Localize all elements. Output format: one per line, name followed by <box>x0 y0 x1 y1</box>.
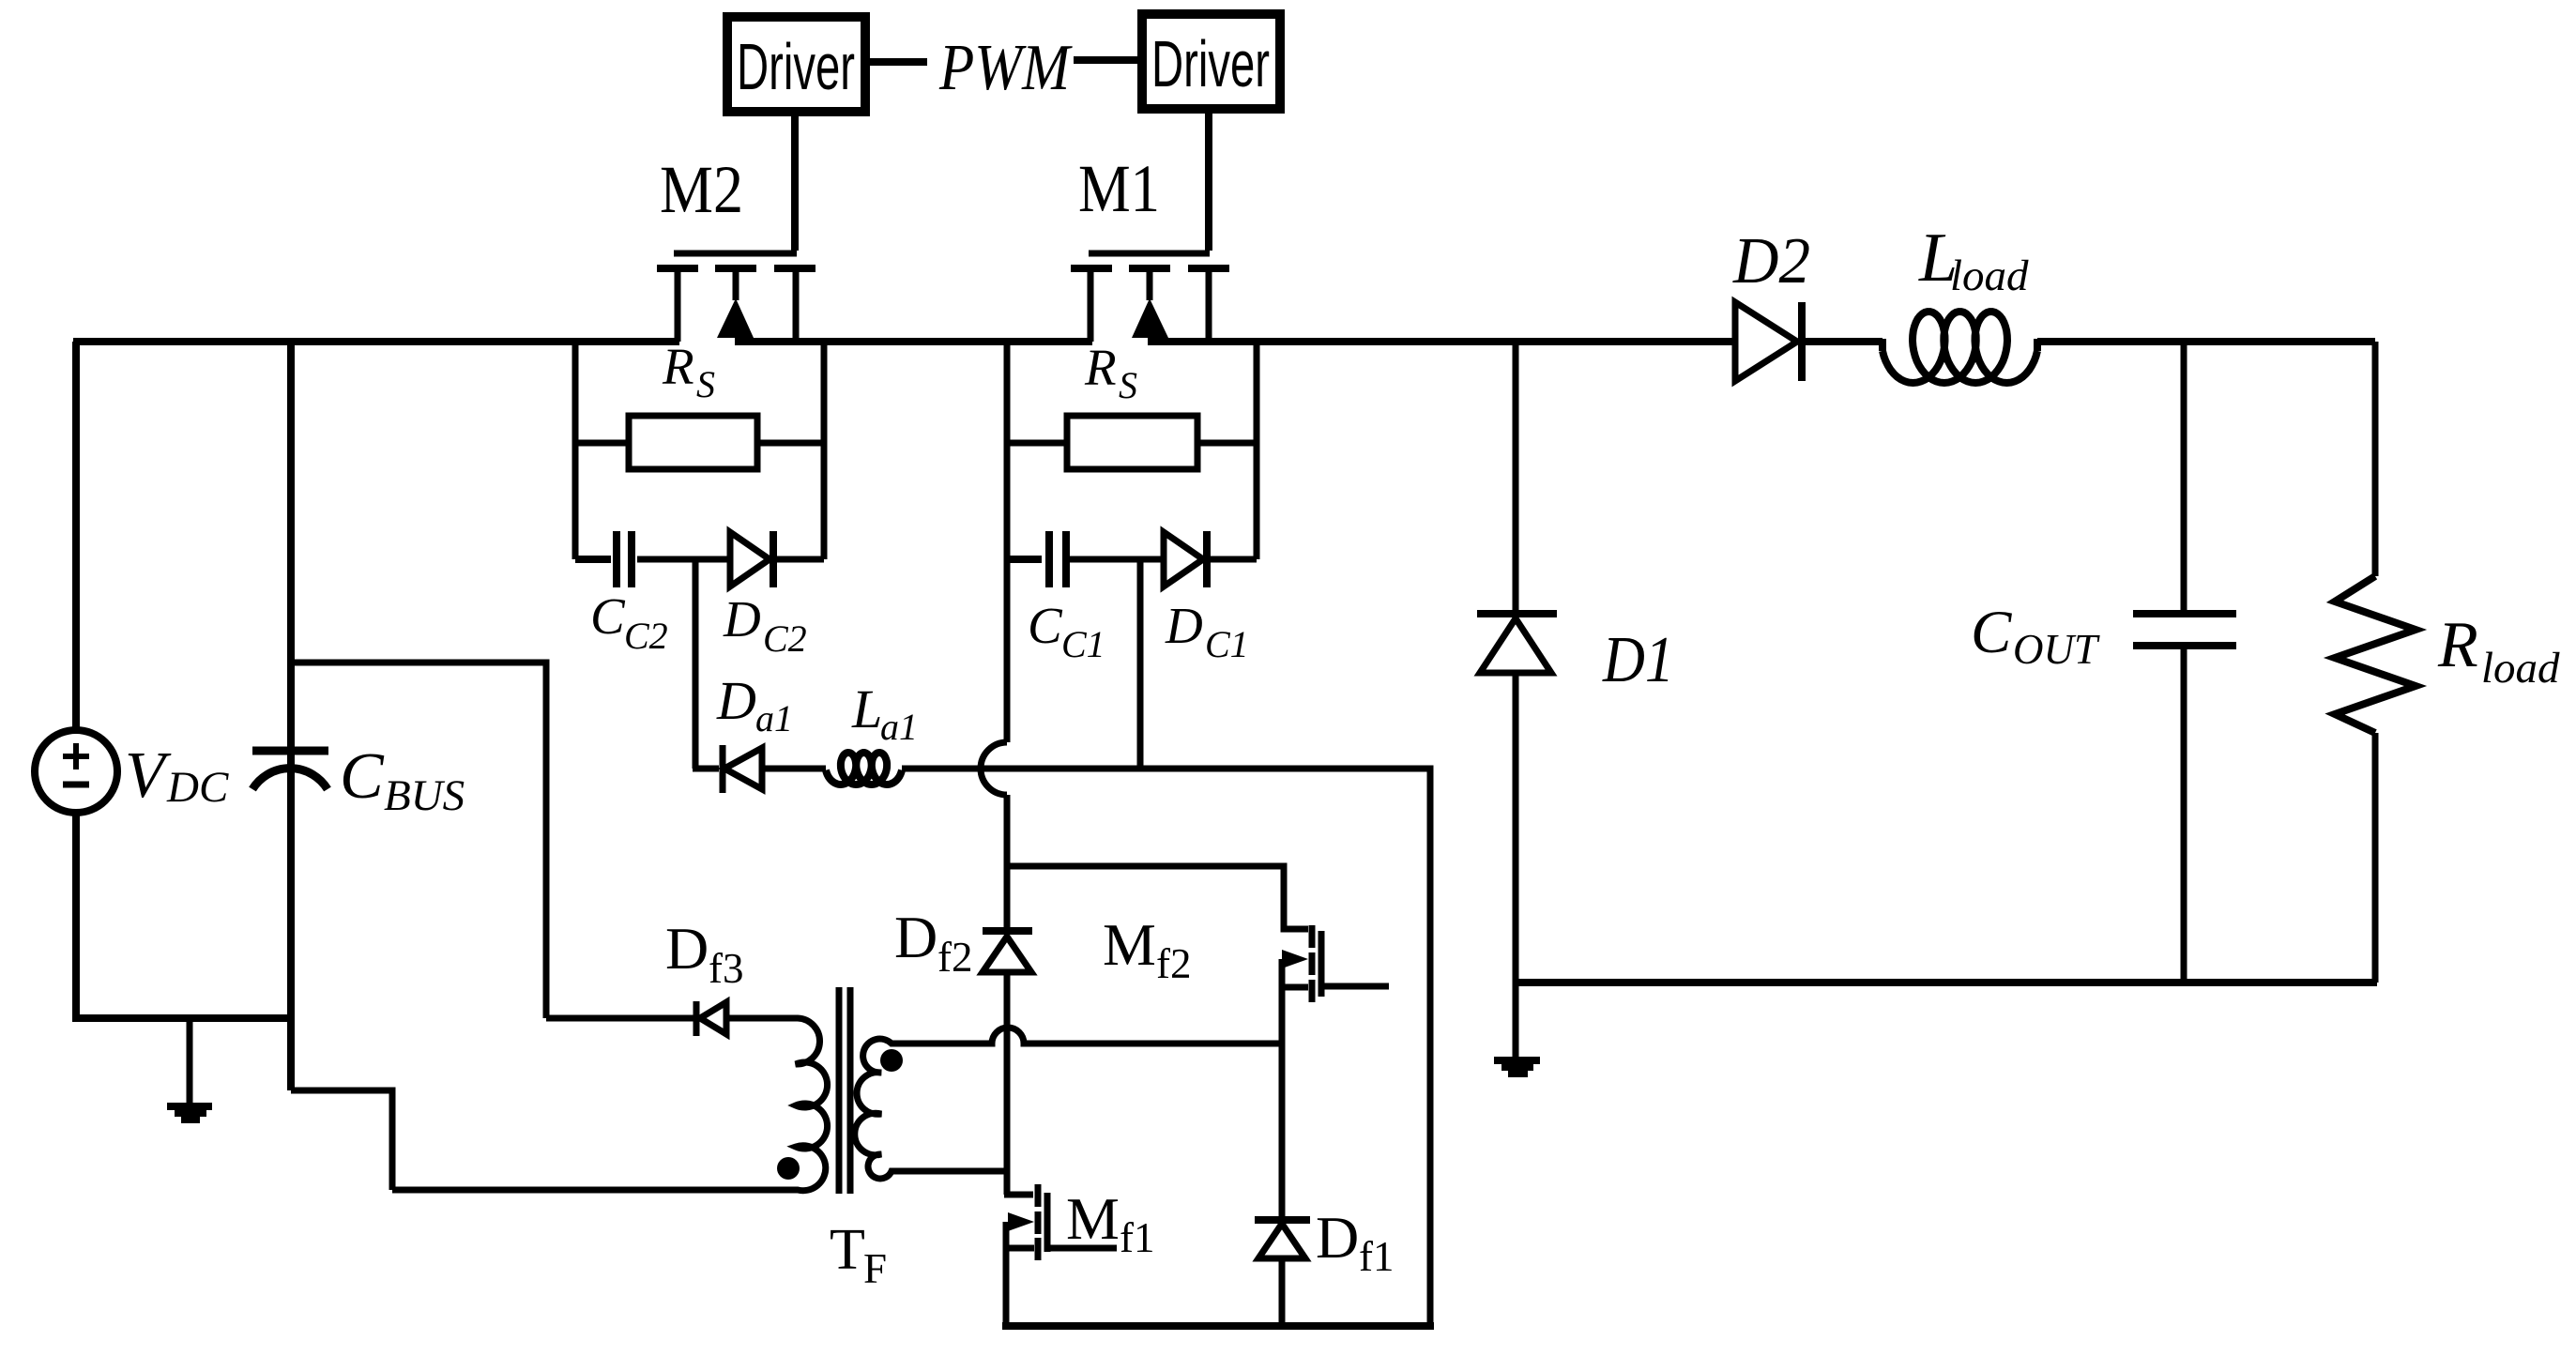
MOSFET M1 <box>1071 253 1229 342</box>
diode DC1 <box>1164 531 1257 587</box>
wire top rail segment C (M1 source to D2 anode) <box>1148 338 1735 345</box>
svg-text:D: D <box>894 904 937 970</box>
MOSFET Mf1 <box>1004 1184 1117 1326</box>
diode DC2 <box>730 531 824 587</box>
svg-text:f1: f1 <box>1359 1233 1395 1280</box>
MOSFET M2 <box>657 253 815 342</box>
label CBUS <box>340 740 465 820</box>
label VDC <box>125 739 229 812</box>
wire D1 anode down to bottom rail <box>1513 673 1519 983</box>
diode D1 <box>1477 614 1557 673</box>
snubber2 right vertical <box>821 342 828 559</box>
transformer TF polarity dot secondary <box>880 1049 903 1072</box>
svg-text:T: T <box>830 1218 865 1282</box>
svg-text:D: D <box>1316 1204 1359 1271</box>
transformer TF primary winding <box>392 1018 828 1191</box>
resistor RS (M2) <box>575 416 824 469</box>
wire snubber2 junction to Da1 <box>693 559 719 769</box>
svg-text:F: F <box>863 1245 887 1292</box>
svg-text:load: load <box>2481 644 2560 693</box>
label La1 <box>851 678 918 748</box>
label Da1 <box>716 670 793 739</box>
svg-text:C2: C2 <box>624 615 668 657</box>
svg-text:OUT: OUT <box>2013 626 2100 673</box>
wire La1 to clamp box right side (crosses clamp vertical) <box>902 769 1430 1326</box>
label PWM <box>938 32 1073 104</box>
svg-text:R: R <box>662 338 694 395</box>
wire clamp top rail (Df2 cathode to Mf2 drain) <box>1004 866 1308 929</box>
svg-text:D: D <box>723 590 761 648</box>
wire PWM to driver1 <box>1074 56 1142 64</box>
svg-text:f2: f2 <box>1156 940 1192 987</box>
label CC1 <box>1028 597 1105 665</box>
diode Df2 <box>983 931 1032 972</box>
label M1 <box>1078 151 1160 226</box>
capacitor CC2 <box>575 531 730 587</box>
svg-text:PWM: PWM <box>938 32 1073 104</box>
svg-text:load: load <box>1950 251 2029 300</box>
capacitor CBUS <box>252 342 328 1090</box>
label COUT <box>1971 599 2100 673</box>
wire driver2 to PWM <box>865 58 927 66</box>
svg-text:D: D <box>716 670 756 731</box>
svg-text:M: M <box>1103 911 1156 978</box>
label DC2 <box>723 590 807 660</box>
wire clamp bottom rail <box>1002 1322 1434 1330</box>
svg-text:f3: f3 <box>709 945 744 992</box>
svg-text:L: L <box>851 678 882 739</box>
wire D1 branch from rail <box>1513 342 1519 610</box>
svg-text:C1: C1 <box>1061 623 1105 665</box>
wire Df2 anode down to Mf1 drain / secondary bottom node <box>1004 972 1011 1195</box>
svg-text:M2: M2 <box>660 152 743 227</box>
svg-text:f2: f2 <box>937 934 973 981</box>
svg-text:D2: D2 <box>1732 225 1810 297</box>
inductor Lload <box>1882 312 2037 383</box>
wire CBUS node to Df3 branch <box>287 663 546 1018</box>
transformer TF secondary winding <box>855 1028 1282 1179</box>
svg-text:C: C <box>590 587 626 645</box>
capacitor CC1 <box>1007 531 1164 587</box>
label Df2 <box>894 904 973 981</box>
wire bottom right rail <box>1516 979 2377 986</box>
label Mf2 <box>1103 911 1192 987</box>
svg-text:R: R <box>2437 609 2478 681</box>
svg-text:C1: C1 <box>1205 623 1249 665</box>
snubber1 left vertical (M1 drain node) <box>1004 342 1011 559</box>
wire driver2 gate <box>791 112 799 251</box>
driver box (M1) <box>1142 14 1280 109</box>
snubber1 right vertical <box>1254 342 1260 559</box>
svg-text:C2: C2 <box>763 617 807 660</box>
wire driver1 gate <box>1205 109 1212 251</box>
transformer TF polarity dot primary <box>777 1157 800 1180</box>
resistor RS (M1) <box>1007 416 1257 469</box>
label M2 <box>660 152 743 227</box>
wire CBUS bottom to transformer primary return <box>291 1090 392 1190</box>
label Lload <box>1918 220 2029 300</box>
MOSFET Mf2 <box>1282 925 1389 1002</box>
resistor Rload <box>2335 342 2416 983</box>
svg-text:R: R <box>1084 339 1117 396</box>
label Df3 <box>665 915 744 992</box>
svg-text:S: S <box>1119 364 1137 406</box>
svg-text:f1: f1 <box>1120 1214 1155 1261</box>
wire top rail segment B (M2 source to M1 drain) <box>735 338 1092 345</box>
wire VDC bottom rail <box>72 1014 291 1022</box>
wire top rail segment D (D2 cathode to Lload) <box>1805 338 1882 345</box>
svg-text:C: C <box>1028 597 1063 654</box>
label RS (M2) <box>662 338 715 405</box>
svg-text:C: C <box>1971 599 2012 666</box>
svg-text:Driver: Driver <box>737 30 855 103</box>
wire Mf2 source down through secondary-top node to Df1 <box>1279 959 1286 1220</box>
wire snubber1 CC1-DC1 junction down to La1 wire <box>1137 559 1144 769</box>
label TF <box>830 1218 887 1292</box>
wire to Df3 anode <box>546 1015 696 1022</box>
svg-text:BUS: BUS <box>384 771 465 820</box>
svg-text:D1: D1 <box>1602 624 1674 696</box>
inductor La1 <box>826 753 902 785</box>
svg-text:a1: a1 <box>755 697 793 739</box>
label Driver (M1) <box>1151 27 1270 100</box>
snubber2 left vertical <box>572 342 579 559</box>
svg-text:V: V <box>125 739 172 812</box>
wire top rail segment A (VDC+ to M2 drain) <box>73 338 679 345</box>
svg-text:Driver: Driver <box>1151 27 1270 100</box>
label RS (M1) <box>1084 339 1137 406</box>
voltage source VDC <box>35 342 117 1018</box>
wire Da1 to La1 <box>762 766 826 772</box>
wire M2-M1 midnode down to clamp (with hop over La1 wire) <box>981 559 1007 935</box>
svg-text:a1: a1 <box>880 706 918 748</box>
diode Df3 <box>696 1001 726 1036</box>
label Df1 <box>1316 1204 1395 1280</box>
svg-text:M1: M1 <box>1078 151 1160 226</box>
label D2 <box>1732 225 1810 297</box>
ground (output) <box>1494 983 1540 1074</box>
svg-text:M: M <box>1066 1185 1120 1252</box>
ground (VDC loop) <box>167 1018 212 1120</box>
diode D2 <box>1735 302 1802 381</box>
svg-text:C: C <box>340 740 385 813</box>
svg-text:D: D <box>1165 597 1203 654</box>
label DC1 <box>1165 597 1249 665</box>
transformer TF core <box>839 987 850 1194</box>
label Driver (M2) <box>737 30 855 103</box>
capacitor COUT <box>2133 342 2236 983</box>
wire top rail segment E (Lload to Rload corner) <box>2037 338 2375 345</box>
wire Df1 anode to clamp bottom rail <box>1279 1258 1286 1326</box>
svg-text:DC: DC <box>166 763 229 812</box>
diode Df1 <box>1255 1220 1310 1258</box>
label Mf1 <box>1066 1185 1155 1261</box>
diode Da1 <box>723 745 762 793</box>
label CC2 <box>590 587 668 657</box>
label Rload <box>2437 609 2560 693</box>
label D1 <box>1602 624 1674 696</box>
svg-text:D: D <box>665 915 709 982</box>
driver box (M2) <box>727 17 865 112</box>
svg-text:S: S <box>696 363 715 405</box>
